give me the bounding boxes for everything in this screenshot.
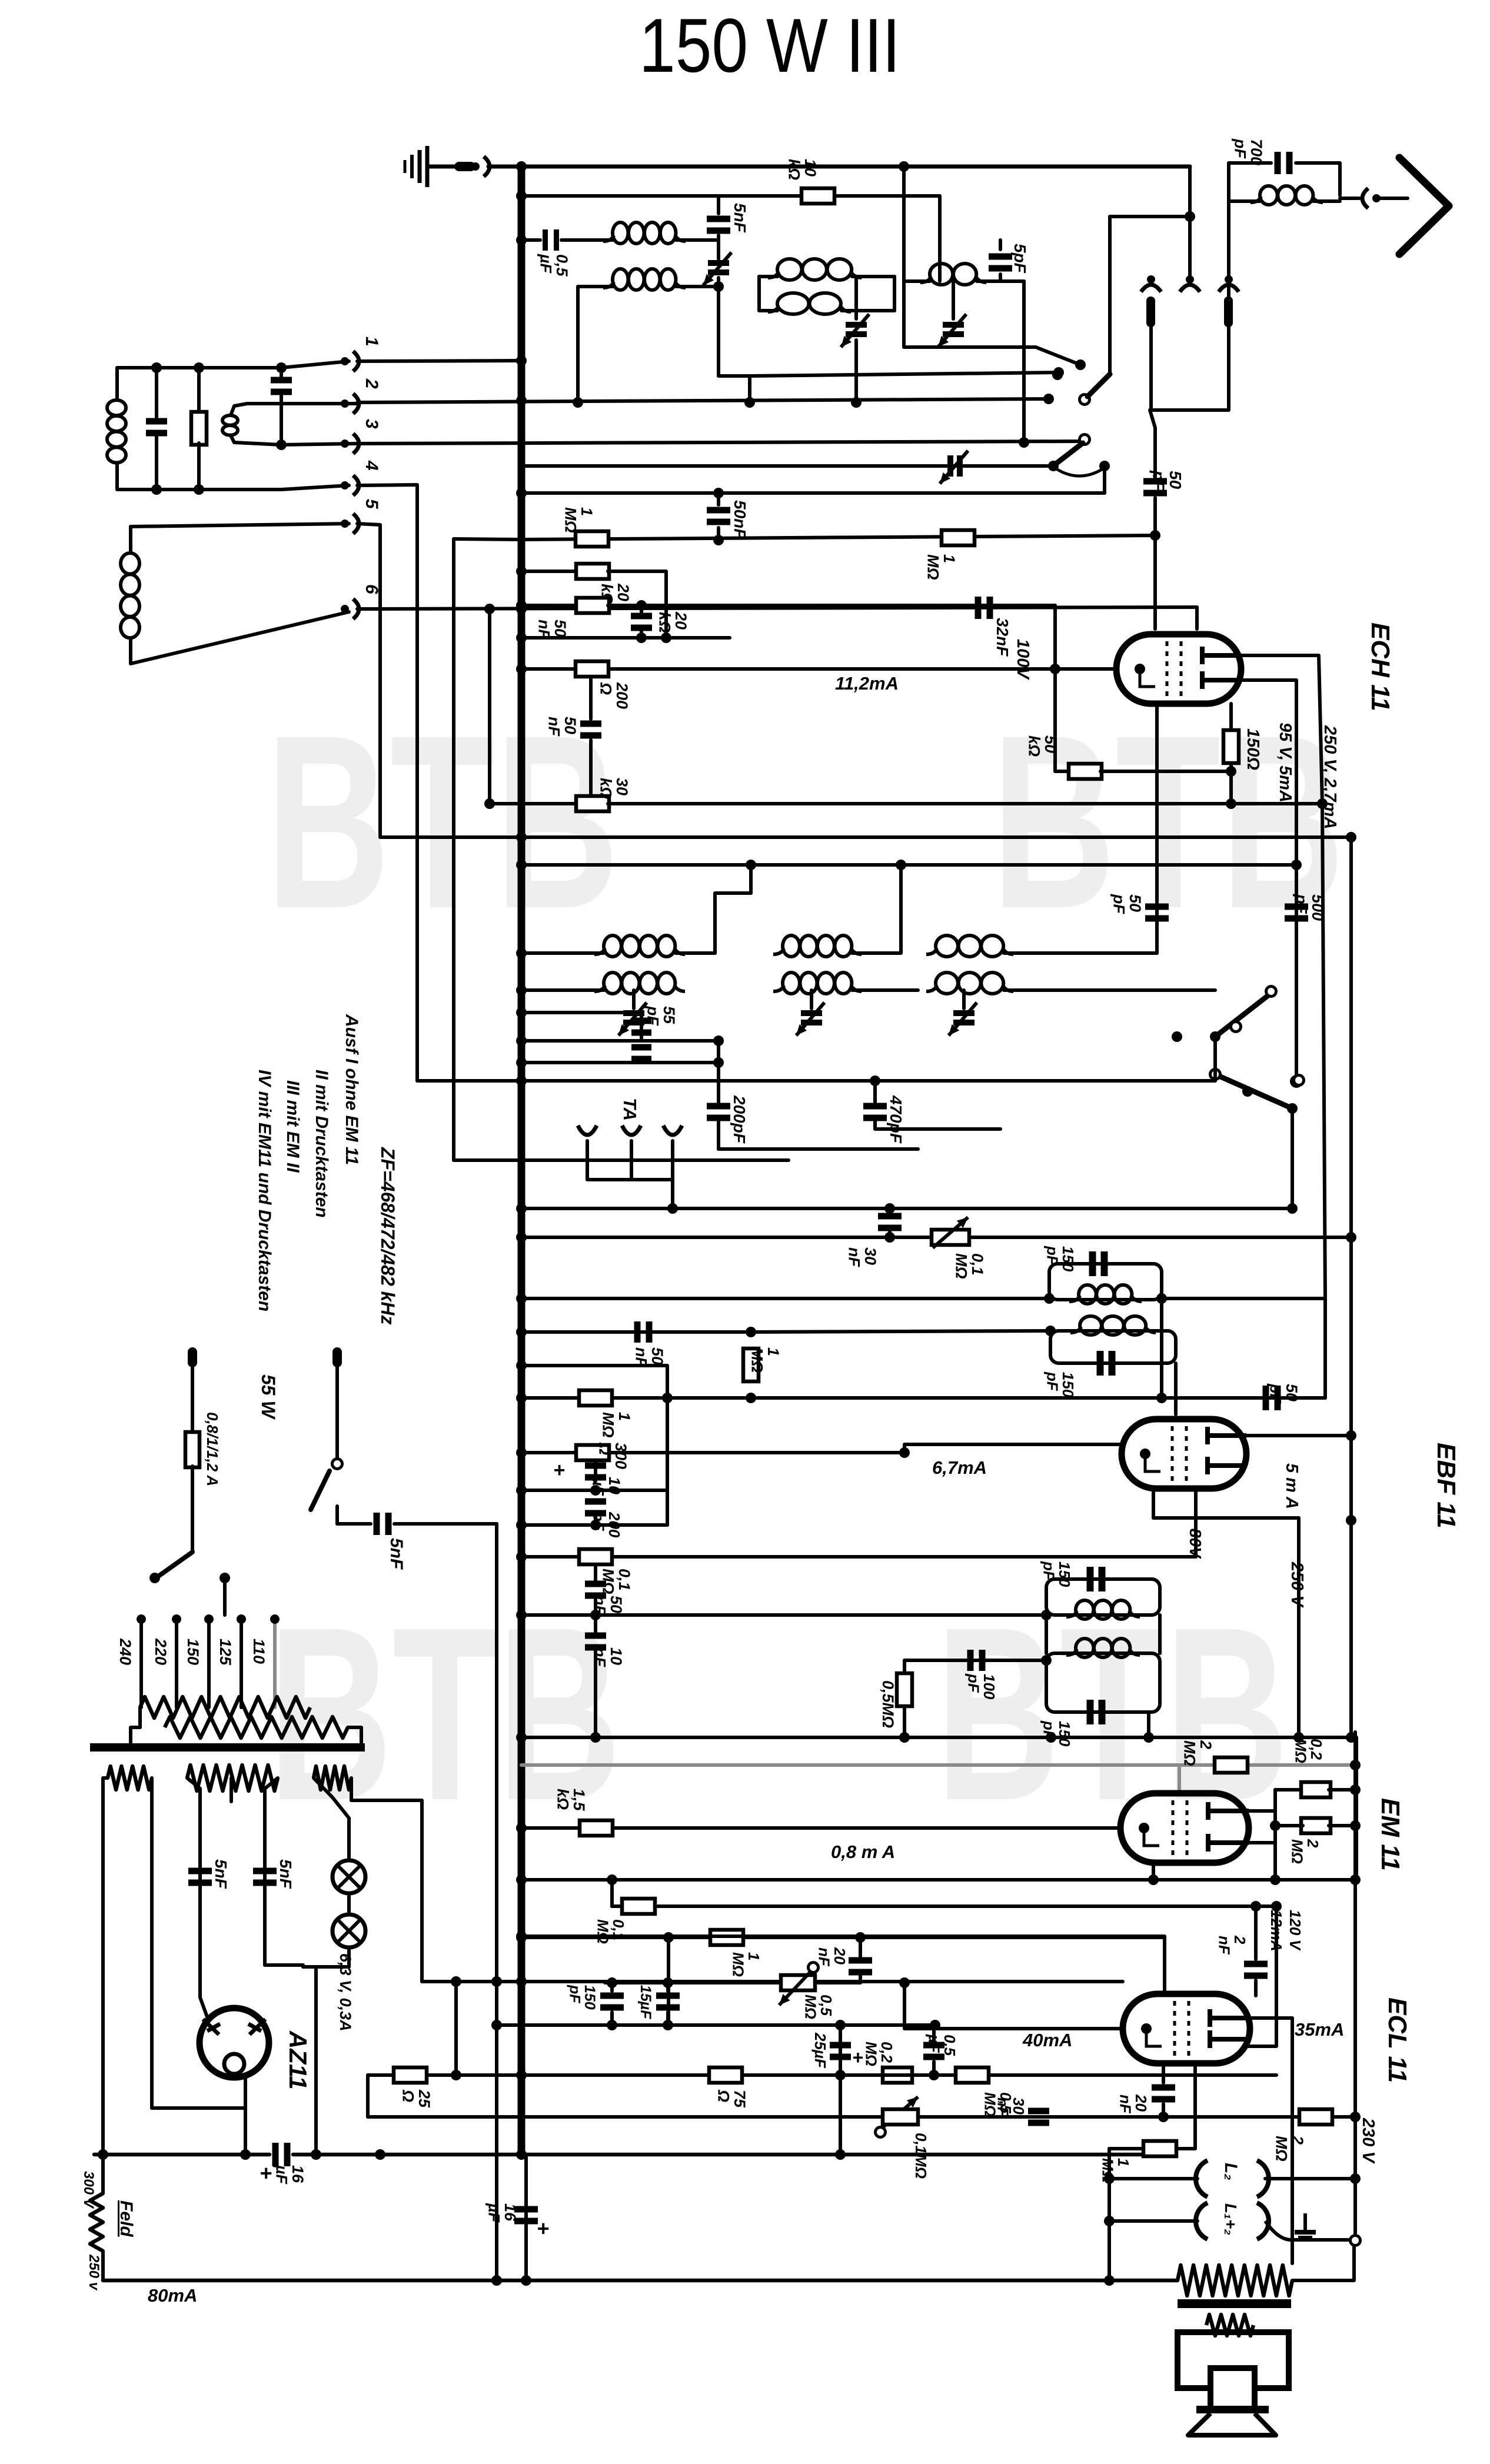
wire [852, 275, 894, 278]
wire [666, 1983, 670, 1991]
wire [932, 2062, 936, 2075]
svg-text:5 m A: 5 m A [1282, 1463, 1301, 1509]
junction [516, 1035, 527, 1046]
capacitor 0,5uF [923, 2042, 944, 2060]
svg-text:35mA: 35mA [1295, 2019, 1344, 2040]
svg-text:95 V, 5mA: 95 V, 5mA [1276, 722, 1295, 803]
resistor 1 MOhm (5) [1143, 2141, 1176, 2156]
junction [516, 1393, 527, 1403]
wire [977, 279, 1024, 283]
wire AVC to diode [521, 1396, 1325, 1400]
wire [1004, 988, 1215, 992]
wire [131, 612, 349, 664]
capacitor 200pF [707, 1103, 730, 1121]
wire [1273, 1790, 1277, 1880]
junction [1226, 766, 1236, 777]
capacitor 500pF [1285, 904, 1308, 922]
junction [1143, 1732, 1154, 1743]
speaker bar [1196, 2406, 1269, 2413]
wire [1313, 199, 1340, 203]
wire [1265, 2177, 1355, 2180]
svg-text:120 V: 120 V [1286, 1910, 1304, 1952]
junction [896, 860, 906, 870]
wire [719, 1147, 918, 1151]
wire EM11 top cap [1178, 1765, 1181, 1792]
contact tap 125 [237, 1614, 246, 1624]
wire heater feed [351, 1778, 422, 1982]
wire [594, 1565, 597, 1583]
wire bottom rail [103, 2279, 1178, 2283]
svg-text:0,5MΩ: 0,5MΩ [879, 1680, 897, 1728]
svg-text:5nF: 5nF [277, 1859, 295, 1889]
junction [661, 632, 671, 643]
potentiometer tap [809, 1963, 819, 1973]
wire [521, 570, 577, 573]
junction [516, 1732, 527, 1743]
wire [715, 893, 751, 953]
switch voltage selector arm [156, 1552, 192, 1578]
wire [717, 1041, 720, 1103]
wire [1162, 2104, 1165, 2117]
svg-text:0,2MΩ: 0,2MΩ [1292, 1739, 1325, 1763]
capacitor 0,5 uF [543, 229, 559, 251]
wire [316, 1965, 349, 1969]
resistor 25 Ohm [394, 2067, 427, 2083]
IF transformer 2 tank B coil [1070, 1316, 1156, 1335]
junction [1287, 1203, 1298, 1214]
wire [719, 194, 801, 198]
wire [490, 802, 577, 805]
switch contact [1292, 1077, 1302, 1087]
junction [516, 664, 527, 674]
wire screen feed [612, 1904, 1276, 1908]
capacitor 16uF a [272, 2143, 291, 2166]
IF transformer 3 tank A capacitor 150pF [1087, 1567, 1106, 1591]
junction [1271, 1901, 1282, 1912]
speaker frame [1178, 2332, 1289, 2388]
svg-text:ZF=468/472/482 kHz: ZF=468/472/482 kHz [377, 1147, 398, 1325]
wire trimmer stub [810, 990, 813, 1008]
capacitor 10uF [585, 1463, 606, 1481]
wire [200, 1997, 207, 2017]
wire 230V rail tail [1353, 2117, 1357, 2233]
wire HT lead b [265, 1778, 278, 1965]
capacitor 20nF b [1152, 2085, 1175, 2103]
junction [835, 2020, 846, 2030]
svg-text:0,1MΩ: 0,1MΩ [952, 1253, 986, 1279]
junction [1291, 860, 1302, 870]
wire [265, 1965, 303, 1967]
junction [516, 832, 527, 843]
inductor IF coil 1A [594, 935, 685, 957]
IF transformer 2 tank B capacitor 150pF [1097, 1351, 1116, 1376]
contact tap 240 [137, 1614, 146, 1624]
resistor 0,5 MOhm (2) [956, 2067, 989, 2083]
junction [516, 1327, 527, 1337]
potentiometer 0,1 MOhm arrow 2 [883, 2097, 918, 2127]
junction [590, 1520, 601, 1530]
capacitor 16uF b [514, 2206, 538, 2225]
potentiometer 0,5 MOhm arrow [779, 1966, 816, 2005]
wire [859, 1976, 862, 1983]
inductor L2 [1196, 2160, 1269, 2197]
transformer core [90, 1743, 365, 1752]
wire [667, 1937, 670, 2025]
svg-text:6,7mA: 6,7mA [932, 1457, 987, 1478]
junction [663, 2020, 673, 2030]
svg-text:150Ω: 150Ω [1243, 728, 1262, 770]
switch band selector arm [1087, 374, 1110, 397]
wire cathode drop [839, 2025, 842, 2155]
junction [484, 604, 495, 614]
junction [1075, 359, 1086, 370]
svg-text:+: + [537, 2216, 549, 2240]
wire [1103, 466, 1106, 493]
wire [1275, 1824, 1303, 1827]
wire terminal2 line [357, 399, 1049, 402]
junction [516, 2070, 527, 2080]
junction [516, 1293, 527, 1304]
tube EBF11 [1122, 1419, 1246, 1489]
inductor IF coil 2A [773, 935, 862, 957]
wire [1248, 1841, 1275, 1844]
junction [1104, 2173, 1115, 2184]
inductor antenna input coil [107, 400, 126, 462]
wire tap 110 [273, 1617, 277, 1707]
wire [191, 1466, 194, 1552]
wire [903, 1660, 906, 1673]
svg-text:55 W: 55 W [258, 1374, 279, 1420]
switch mains contact [332, 1459, 342, 1469]
wire ECH11 top cap [1195, 607, 1199, 629]
junction [607, 1977, 617, 1988]
wire [1229, 199, 1260, 203]
junction [516, 632, 527, 643]
wire [1045, 1615, 1048, 1653]
wire IF feed [521, 988, 604, 992]
wire [129, 527, 132, 553]
wire long line B [521, 863, 1296, 867]
resistor 1,5 kOhm [580, 1820, 613, 1836]
resistor 10 kOhm [801, 188, 834, 204]
wire AF return [493, 2023, 935, 2027]
wire long line F [521, 1236, 1351, 1239]
junction [746, 860, 756, 870]
wire heater line [422, 1980, 1123, 1983]
switch contact [1231, 1022, 1241, 1032]
wire [904, 1444, 1120, 1453]
wire [873, 1081, 877, 1103]
junction [607, 2020, 617, 2030]
svg-text:EM 11: EM 11 [1376, 1798, 1405, 1871]
wire [676, 285, 719, 288]
wire [852, 865, 901, 953]
junction [884, 1232, 895, 1243]
resistor 150 Ohm [1223, 730, 1239, 763]
wire [1355, 1737, 1358, 1877]
terminal TA 1073 [622, 1126, 641, 1135]
junction [746, 1393, 756, 1403]
terminal contact 3 [341, 434, 359, 454]
junction [835, 2149, 846, 2160]
svg-text:25µF: 25µF [811, 2032, 829, 2069]
capacitor 55pF a [631, 1018, 651, 1036]
svg-text:150 W III: 150 W III [639, 2, 900, 88]
junction [1041, 1610, 1052, 1620]
wire to band switch [750, 372, 1059, 376]
wire [840, 1981, 860, 1984]
switch band selector arm 2 [1055, 443, 1083, 465]
wire [155, 434, 158, 490]
junction [1043, 394, 1054, 404]
junction [516, 488, 527, 498]
svg-text:III mit EM II: III mit EM II [283, 1080, 302, 1173]
tube ECL11 [1123, 1994, 1250, 2063]
winding heater 6,3V [314, 1766, 351, 1790]
wire [152, 2106, 245, 2110]
wire [281, 361, 349, 368]
wire [115, 368, 119, 400]
wire [1107, 2149, 1111, 2280]
svg-text:L₁+₂: L₁+₂ [1222, 2203, 1240, 2235]
capacitor 700pF [1275, 152, 1293, 174]
junction [663, 1977, 673, 1988]
tube EM11 [1120, 1793, 1249, 1863]
IF transformer 3 tank A frame [1046, 1579, 1160, 1615]
svg-text:0,5MΩ: 0,5MΩ [801, 1994, 835, 2019]
resistor 0,2 MOhm (2) [883, 2067, 912, 2083]
tube AZ11 [199, 2008, 269, 2077]
wire switched mains drop [495, 1524, 498, 2280]
junction [662, 1393, 673, 1403]
wire [247, 402, 357, 405]
wire [1053, 605, 1057, 669]
wire main chassis bus [518, 167, 526, 2155]
wire [1296, 163, 1340, 195]
junction [151, 362, 162, 373]
junction [1150, 530, 1160, 541]
wire [1194, 1489, 1198, 1557]
wire [454, 539, 521, 540]
junction [1045, 1326, 1056, 1336]
wire ECH11 grid cap lead [1153, 535, 1157, 629]
svg-text:II mit Drucktasten: II mit Drucktasten [312, 1070, 331, 1218]
wire [521, 464, 1053, 468]
wire [1152, 1489, 1155, 1518]
fuse 0,8/1/1,2 A [185, 1432, 199, 1467]
svg-text:TA: TA [620, 1098, 640, 1121]
terminal ground [471, 157, 490, 177]
wire ECH11 osc anode [1155, 704, 1159, 953]
wire [1340, 197, 1359, 200]
junction [899, 1977, 910, 1988]
capacitor 50pF [1143, 478, 1167, 497]
wire tap 220 [175, 1617, 178, 1707]
wire [1254, 1906, 1258, 1959]
junction [1019, 437, 1029, 448]
junction [151, 484, 162, 495]
svg-text:50pF: 50pF [1149, 470, 1185, 491]
junction [1156, 1293, 1167, 1304]
wire B+ line left [94, 2153, 270, 2157]
junction [516, 1823, 527, 1833]
wire [231, 404, 247, 415]
resistor 2 MOhm (3) [1299, 2109, 1332, 2125]
wire [561, 238, 613, 242]
junction [1250, 1901, 1261, 1912]
wire top ground rail [488, 165, 1190, 169]
wire [197, 443, 201, 490]
svg-text:5nF: 5nF [212, 1859, 230, 1889]
junction [516, 600, 527, 611]
junction [516, 235, 527, 245]
capacitor 150pF e [600, 1993, 624, 2011]
IF transformer 2 tank A coil [1069, 1285, 1142, 1304]
wire [117, 463, 281, 490]
resistor 1 MOhm (2) [942, 530, 975, 545]
IF transformer 3 tank A coil [1066, 1600, 1140, 1619]
wire [1153, 498, 1157, 535]
resistor 0,1 MOhm pot 2 [883, 2109, 918, 2125]
speaker cone [1188, 2413, 1276, 2435]
wire [717, 278, 720, 376]
wire long line G [521, 1736, 1356, 1739]
wire [521, 1523, 667, 1527]
wire terminal5 drop [357, 524, 380, 837]
wire [1150, 410, 1155, 428]
wire [854, 277, 858, 319]
wire terminal1 line [357, 361, 521, 361]
svg-text:470pF: 470pF [887, 1095, 905, 1144]
wire [155, 368, 158, 420]
wire anode supply rail [1349, 837, 1353, 1737]
capacitor 5nF a [188, 1868, 212, 1886]
terminal antenna middle [1180, 275, 1200, 292]
wire EBF11 anode [1246, 1434, 1351, 1437]
junction [1350, 2173, 1361, 2184]
junction [1226, 798, 1236, 809]
wire [1329, 1824, 1355, 1827]
inductor IF coil 3A [926, 935, 1013, 957]
wire [888, 1208, 892, 1212]
wire [952, 281, 955, 319]
svg-text:40mA: 40mA [1022, 2030, 1072, 2050]
wire [999, 274, 1002, 281]
junction [451, 2070, 461, 2080]
wire [347, 1947, 351, 1967]
wire AF drive [521, 1934, 1165, 1938]
svg-text:15µF: 15µF [637, 1985, 654, 2019]
inductor IF coil 1B [594, 973, 685, 994]
junction [1210, 1031, 1220, 1042]
IF transformer 3 tank B frame [1046, 1653, 1160, 1712]
junction [1050, 664, 1060, 674]
svg-text:32nF: 32nF [993, 618, 1012, 657]
wire [608, 571, 666, 638]
wire 120V rail [1353, 1732, 1357, 2117]
junction [713, 1057, 724, 1068]
wire EM11 cathode line [521, 1826, 1119, 1830]
wire 80V line [521, 1555, 1196, 1559]
svg-text:IV mit EM11 und Drucktasten: IV mit EM11 und Drucktasten [255, 1070, 274, 1311]
contact tap 150 [204, 1614, 214, 1624]
wire heater AZ lead [150, 1778, 154, 2108]
wire switch curve [1056, 468, 1105, 476]
junction [516, 355, 527, 366]
terminal contact 4 [341, 475, 359, 495]
junction [929, 2070, 939, 2080]
svg-text:50pF: 50pF [1266, 1383, 1301, 1404]
junction [1287, 1103, 1298, 1114]
ground terminal blob [454, 162, 475, 171]
wire [717, 528, 720, 539]
wire [197, 368, 201, 414]
wire screen feed [612, 1904, 1276, 1908]
wire [578, 287, 613, 402]
wire [1292, 2246, 1354, 2280]
wire [1227, 195, 1230, 297]
resistor 1 MOhm (3) [579, 1390, 612, 1406]
wire [749, 865, 753, 893]
wire [191, 1367, 194, 1433]
terminal contact 1 [341, 351, 359, 371]
junction [516, 2149, 527, 2160]
wire [842, 309, 894, 312]
junction [491, 2020, 502, 2030]
wire [129, 638, 132, 664]
wire [303, 1965, 316, 1969]
svg-text:2: 2 [362, 378, 381, 389]
junction [219, 1573, 230, 1583]
svg-text:+: + [553, 1459, 565, 1481]
resistor 300 Ohm [576, 1445, 609, 1460]
svg-text:4: 4 [362, 460, 381, 471]
junction [516, 1874, 527, 1885]
junction [1350, 2112, 1361, 2122]
trimmer capacitor antenna [703, 252, 731, 285]
wire long line A [380, 835, 1351, 839]
junction [851, 397, 862, 408]
wire [1291, 1108, 1294, 1208]
terminal stub [1146, 297, 1155, 327]
wire [1109, 2147, 1142, 2150]
wire trimmer stub [962, 990, 966, 1008]
svg-text:6,3 V, 0,3A: 6,3 V, 0,3A [337, 1953, 354, 2032]
junction [713, 1035, 724, 1046]
wire [348, 1727, 361, 1744]
inductor RF coil band2 sec [768, 293, 851, 314]
junction [516, 161, 527, 172]
wire [902, 167, 906, 347]
capacitor 55pF b [631, 1044, 651, 1063]
wire [630, 1141, 633, 1180]
junction [276, 362, 287, 373]
capacitor 5nF [707, 216, 730, 234]
wire ECL11 grid [904, 2027, 1122, 2030]
field coil Feld [90, 2193, 103, 2251]
wire [1229, 163, 1271, 195]
junction [484, 798, 495, 809]
junction [899, 1732, 910, 1743]
capacitor 5pF [989, 254, 1012, 272]
svg-text:230 V: 230 V [1359, 2117, 1378, 2164]
junction [1346, 1430, 1356, 1441]
winding HT secondary [187, 1765, 278, 1791]
wire [452, 539, 455, 1160]
junction [855, 1932, 866, 1943]
ground [405, 146, 427, 187]
svg-text:50nF: 50nF [545, 717, 579, 737]
